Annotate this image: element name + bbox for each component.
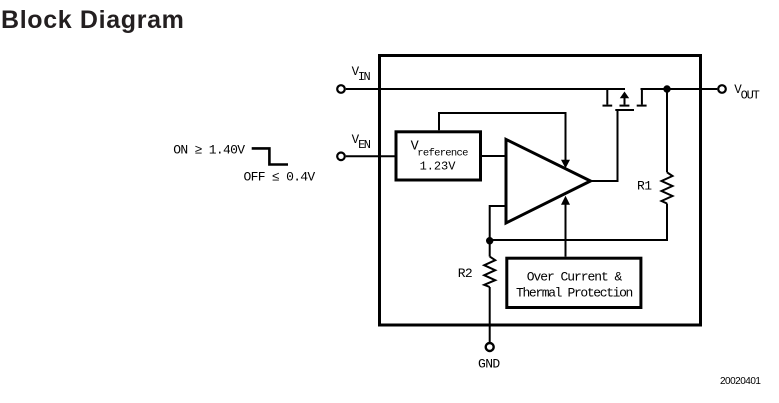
svg-text:OFF ≤ 0.4V: OFF ≤ 0.4V	[244, 170, 316, 185]
svg-text:reference: reference	[417, 148, 468, 160]
svg-text:20020401: 20020401	[720, 376, 761, 387]
svg-text:GND: GND	[478, 356, 500, 371]
svg-text:EN: EN	[358, 138, 371, 152]
svg-text:R2: R2	[458, 266, 472, 281]
svg-text:Thermal Protection: Thermal Protection	[516, 285, 633, 300]
svg-text:R1: R1	[637, 179, 652, 194]
svg-text:ON ≥ 1.40V: ON ≥ 1.40V	[173, 143, 245, 158]
svg-text:Over Current &: Over Current &	[527, 269, 623, 284]
svg-text:IN: IN	[358, 70, 371, 84]
svg-text:OUT: OUT	[741, 89, 760, 103]
svg-text:1.23V: 1.23V	[420, 160, 457, 174]
